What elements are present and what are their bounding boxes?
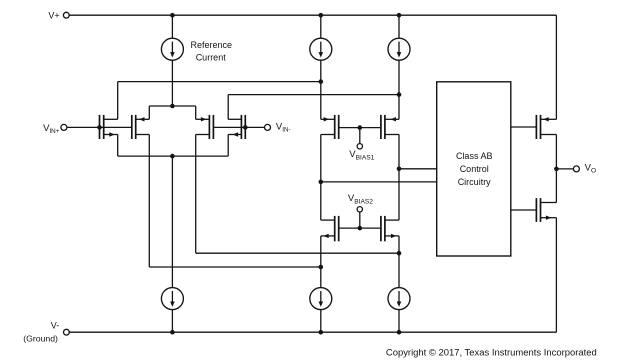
wire: Q8 source down to bottom current source 3 xyxy=(398,236,400,288)
V_BIAS1 terminal xyxy=(357,144,362,149)
wire: current source I6 to V- rail xyxy=(398,310,400,333)
transistor Q4 (input PMOS, V_IN-) xyxy=(228,115,245,139)
wire: class AB box to Q9 gate xyxy=(511,126,537,128)
wire: node A down to Q1 drain xyxy=(117,82,119,120)
wire: V_BIAS1 gate line xyxy=(339,127,381,129)
transistor Q9 (output PMOS) xyxy=(536,115,556,139)
node: right signal node to class AB xyxy=(397,167,402,172)
wire: current source I4 to V- rail xyxy=(171,310,173,333)
wire: tail to Q3 drain xyxy=(195,106,197,119)
svg-text:Current: Current xyxy=(196,53,227,63)
wire: Q1 drain line at node A xyxy=(118,81,321,83)
current source I5 (bottom middle) xyxy=(310,288,332,310)
svg-text:VIN+: VIN+ xyxy=(43,123,60,135)
node: V_BIAS1 gate junction xyxy=(358,125,363,130)
svg-text:(Ground): (Ground) xyxy=(23,334,58,344)
wire: V+ rail down to Q9 drain xyxy=(555,15,557,119)
wire: gates of Q3 and Q4 to V_IN- xyxy=(213,126,264,128)
V_IN- input terminal xyxy=(265,124,271,130)
wire: P-pair tail bus xyxy=(118,155,229,157)
wire: node D bus from Q2 xyxy=(149,266,320,268)
svg-text:VBIAS2: VBIAS2 xyxy=(348,193,373,205)
transistor Q3 (input NMOS, V_IN-) xyxy=(196,115,214,139)
svg-text:Reference: Reference xyxy=(191,40,233,50)
transistor Q8 (cascode, V_BIAS2 right) xyxy=(381,216,399,241)
svg-text:V-: V- xyxy=(51,320,60,330)
wire: Q10 source down to V- rail xyxy=(555,218,557,333)
wire: rail drop to current source 2 xyxy=(320,15,322,38)
wire: Q4 source down to P-pair tail xyxy=(227,135,229,157)
wire: V_BIAS2 gate line xyxy=(339,227,381,229)
current source I4 (bottom left) xyxy=(161,288,183,310)
node: left signal node to class AB xyxy=(319,180,324,185)
svg-text:Control: Control xyxy=(460,164,489,174)
wire: Q6 drain down to Q8 drain xyxy=(398,135,400,221)
wire: current source 2 down to node A xyxy=(320,60,322,81)
wire: tail to Q2 drain xyxy=(148,106,150,119)
wire: V_BIAS2 stub xyxy=(359,212,361,228)
svg-text:VBIAS1: VBIAS1 xyxy=(349,149,374,161)
wire: node B down to Q4 drain xyxy=(227,95,229,120)
wire: Q7 source down to bottom current source 2 xyxy=(320,236,322,288)
svg-text:VIN-: VIN- xyxy=(276,122,291,134)
node: rail to current source I4 xyxy=(170,330,175,335)
wire: Q9 source to Q10 drain (output node) xyxy=(555,135,557,203)
wire: reference current source to input pair tail xyxy=(171,60,173,106)
node B junction xyxy=(397,92,402,97)
wire: rail drop to reference current source xyxy=(171,15,173,38)
wire: current source I5 to V- rail xyxy=(320,310,322,333)
wire: Q3 source down to node C xyxy=(195,135,197,254)
transistor Q1 (input PMOS, V_IN+) xyxy=(100,115,118,139)
wire: Q5 drain down to Q7 drain xyxy=(320,135,322,221)
wire: V_BIAS1 stub xyxy=(359,128,361,144)
current source I6 (bottom right) xyxy=(388,288,410,310)
wire: class AB box to Q10 gate xyxy=(511,209,537,211)
V_O output terminal xyxy=(573,166,579,172)
transistor Q2 (input NMOS, V_IN+) xyxy=(132,115,150,139)
svg-text:Class AB: Class AB xyxy=(456,151,493,161)
wire: N-pair tail bus xyxy=(149,105,195,107)
transistor Q10 (output NMOS) xyxy=(536,198,556,222)
svg-text:Circuitry: Circuitry xyxy=(458,177,491,187)
wire: Q2 source down to node D xyxy=(148,135,150,268)
wire: output node to V_O terminal xyxy=(556,168,573,170)
wire: V_IN+ to gates of Q1 and Q2 xyxy=(67,126,132,128)
wire: Q1 source down to P-pair tail xyxy=(117,135,119,157)
node: Q4 gate junction xyxy=(243,125,248,130)
transistor Q7 (cascode, V_BIAS2 left) xyxy=(321,216,339,241)
wire: rail drop to current source 3 xyxy=(398,15,400,38)
wire: current source 3 down to node B xyxy=(398,60,400,94)
node: output junction xyxy=(554,167,559,172)
V_BIAS2 terminal xyxy=(357,207,362,212)
svg-text:Copyright © 2017, Texas Instru: Copyright © 2017, Texas Instruments Inco… xyxy=(386,348,597,359)
current source I2 (top middle) xyxy=(310,38,332,60)
node: V_BIAS2 gate junction xyxy=(358,226,363,231)
node: rail to current source I5 xyxy=(319,330,324,335)
node C junction xyxy=(397,251,402,256)
current source I3 (top right) xyxy=(388,38,410,60)
node: rail to reference current source xyxy=(170,13,175,18)
node D junction xyxy=(319,265,324,270)
wire: node A down to Q5 cascode xyxy=(320,82,322,120)
wire: Q4 drain line at node B xyxy=(228,94,399,96)
wire: node B down to Q6 cascode xyxy=(398,95,400,120)
wire: V- negative supply rail xyxy=(69,331,556,333)
node: rail to current source 2 xyxy=(319,13,324,18)
node: rail to current source I6 xyxy=(397,330,402,335)
wire: V+ positive supply rail xyxy=(69,14,556,16)
transistor Q6 (cascode, V_BIAS1 right) xyxy=(381,115,399,139)
svg-text:V+: V+ xyxy=(48,11,59,21)
current source I1 (reference current) xyxy=(161,38,183,60)
wire: right signal node into class AB box xyxy=(399,168,437,170)
wire: left signal node into class AB box xyxy=(321,181,437,183)
node: tail junction xyxy=(170,104,175,109)
node A junction xyxy=(319,79,324,84)
transistor Q5 (cascode, V_BIAS1 left) xyxy=(321,115,339,139)
wire: P-tail down to bottom current source 1 xyxy=(171,156,173,288)
node: P-tail junction xyxy=(170,154,175,159)
node: rail to current source 3 xyxy=(397,13,402,18)
Class AB control circuitry block U1 xyxy=(437,82,511,256)
svg-text:VO: VO xyxy=(585,163,596,175)
node: Q1 gate junction xyxy=(97,125,102,130)
wire: node C bus from Q3 xyxy=(196,252,399,254)
